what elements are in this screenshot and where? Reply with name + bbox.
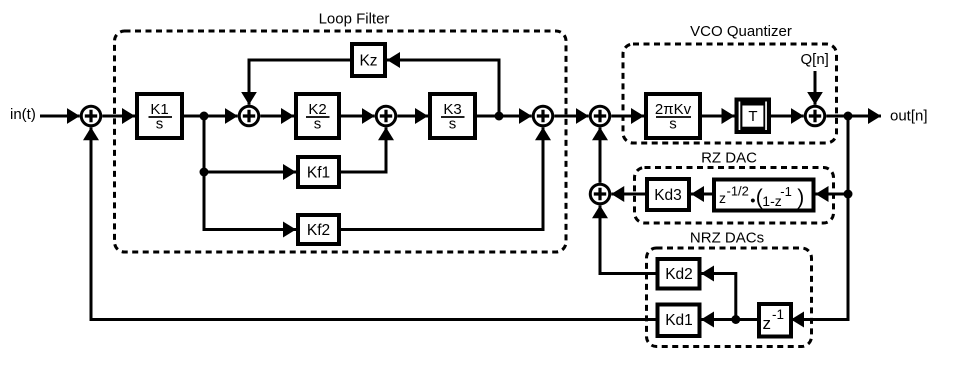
svg-text:VCO Quantizer: VCO Quantizer xyxy=(690,23,792,40)
svg-text:s: s xyxy=(314,116,322,133)
svg-text:Loop Filter: Loop Filter xyxy=(319,11,390,28)
svg-text:Kf1: Kf1 xyxy=(307,165,330,182)
svg-text:RZ DAC: RZ DAC xyxy=(701,150,757,167)
svg-text:in(t): in(t) xyxy=(10,106,36,123)
svg-text:NRZ DACs: NRZ DACs xyxy=(690,230,764,247)
svg-text:Kd1: Kd1 xyxy=(665,312,693,329)
svg-text:1-z: 1-z xyxy=(762,193,781,209)
svg-text:-1: -1 xyxy=(772,307,784,322)
svg-text:): ) xyxy=(797,186,804,209)
svg-text:-1/2: -1/2 xyxy=(727,184,749,199)
svg-text:s: s xyxy=(449,116,457,133)
svg-text:s: s xyxy=(669,116,677,133)
svg-text:z: z xyxy=(719,190,726,206)
svg-text:Kz: Kz xyxy=(359,53,377,70)
svg-text:T: T xyxy=(748,108,757,125)
svg-text:Kd2: Kd2 xyxy=(665,266,693,283)
svg-text:-1: -1 xyxy=(780,184,792,199)
svg-text:s: s xyxy=(156,116,164,133)
svg-text:•: • xyxy=(750,193,755,210)
svg-text:Kf2: Kf2 xyxy=(307,222,330,239)
svg-text:Q[n]: Q[n] xyxy=(801,51,829,68)
svg-text:out[n]: out[n] xyxy=(890,108,928,125)
svg-text:z: z xyxy=(763,314,772,333)
svg-text:Kd3: Kd3 xyxy=(654,187,682,204)
